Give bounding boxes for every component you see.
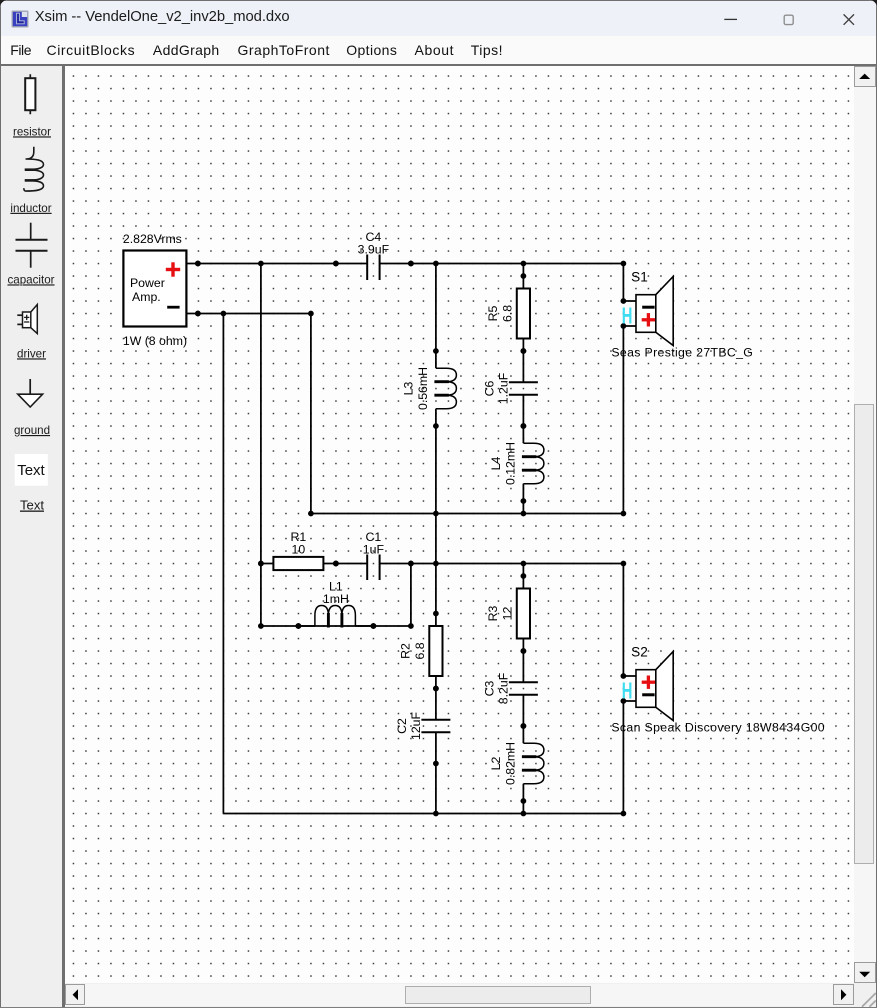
svg-text:1.2uF: 1.2uF bbox=[496, 372, 510, 404]
svg-text:resistor: resistor bbox=[13, 125, 51, 138]
svg-text:Scan Speak Discovery 18W8434G0: Scan Speak Discovery 18W8434G00 bbox=[611, 720, 825, 734]
svg-text:R2: R2 bbox=[398, 643, 412, 659]
svg-text:3.9uF: 3.9uF bbox=[357, 242, 389, 256]
svg-text:L4: L4 bbox=[489, 456, 503, 470]
svg-text:Amp.: Amp. bbox=[132, 290, 161, 304]
svg-text:10: 10 bbox=[291, 542, 305, 556]
svg-text:S1: S1 bbox=[631, 269, 648, 284]
svg-text:inductor: inductor bbox=[10, 202, 51, 215]
svg-text:L2: L2 bbox=[489, 756, 503, 770]
svg-text:0.56mH: 0.56mH bbox=[416, 367, 430, 410]
svg-text:6.8: 6.8 bbox=[413, 642, 427, 659]
svg-text:C2: C2 bbox=[394, 718, 408, 734]
svg-text:R3: R3 bbox=[486, 605, 500, 621]
svg-text:6.8: 6.8 bbox=[500, 305, 514, 322]
svg-text:driver: driver bbox=[17, 347, 46, 360]
svg-text:H: H bbox=[621, 679, 632, 704]
svg-text:L3: L3 bbox=[401, 381, 415, 395]
svg-text:Power: Power bbox=[130, 276, 165, 290]
svg-text:12uF: 12uF bbox=[409, 711, 423, 739]
svg-text:C3: C3 bbox=[482, 680, 496, 696]
svg-text:capacitor: capacitor bbox=[7, 273, 54, 286]
svg-text:Text: Text bbox=[20, 497, 44, 512]
svg-text:Text: Text bbox=[17, 462, 45, 479]
svg-text:C6: C6 bbox=[482, 380, 496, 396]
svg-text:ground: ground bbox=[14, 424, 50, 437]
svg-text:0.82mH: 0.82mH bbox=[503, 742, 517, 785]
svg-text:1mH: 1mH bbox=[323, 592, 349, 606]
svg-text:H: H bbox=[621, 304, 632, 329]
svg-text:8.2uF: 8.2uF bbox=[496, 672, 510, 704]
svg-text:R5: R5 bbox=[486, 305, 500, 321]
svg-text:Seas Prestige 27TBC_G: Seas Prestige 27TBC_G bbox=[611, 345, 753, 359]
svg-text:0.12mH: 0.12mH bbox=[503, 442, 517, 485]
svg-text:1W (8 ohm): 1W (8 ohm) bbox=[122, 334, 186, 348]
svg-text:12: 12 bbox=[500, 606, 514, 620]
svg-text:2.828Vrms: 2.828Vrms bbox=[122, 232, 181, 246]
svg-text:S2: S2 bbox=[631, 644, 648, 659]
svg-text:1uF: 1uF bbox=[362, 542, 384, 556]
